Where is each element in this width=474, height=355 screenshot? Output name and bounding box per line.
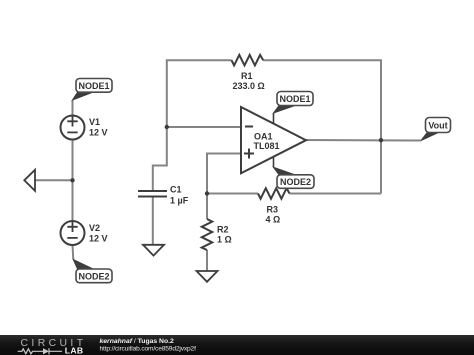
node flag NODE2 (at V2) — [73, 260, 93, 270]
resistor R2 zigzag (vertical) — [202, 219, 213, 250]
wire: R2 bottom to ground — [206, 250, 208, 271]
svg-text:kernahnaf / Tugas No.2: kernahnaf / Tugas No.2 — [100, 338, 175, 345]
svg-text:233.0 Ω: 233.0 Ω — [233, 81, 265, 91]
op-amp V- supply pin — [273, 157, 275, 168]
svg-text:12 V: 12 V — [89, 128, 108, 138]
wire: node C to R2 top — [206, 194, 208, 220]
svg-text:LAB: LAB — [65, 346, 84, 355]
wire: R3 right to right vertical — [290, 193, 382, 195]
op-amp OA1 triangle — [241, 107, 306, 173]
svg-text:NODE1: NODE1 — [279, 94, 310, 104]
svg-text:R3: R3 — [267, 205, 279, 215]
svg-text:4 Ω: 4 Ω — [266, 215, 281, 225]
resistor R1 zigzag — [232, 55, 264, 66]
op-amp minus symbol — [245, 126, 253, 128]
wire: node B down to C1 top — [153, 127, 167, 190]
svg-text:R2: R2 — [217, 225, 229, 235]
node flag Vout — [421, 133, 438, 141]
wire: C1 bottom to ground — [152, 198, 154, 245]
wire: feedback left vertical + top run (left of R1) — [167, 60, 232, 127]
svg-text:1 µF: 1 µF — [170, 196, 189, 206]
node flag NODE1 (op-amp V+) — [274, 106, 296, 114]
ground (below R2) — [197, 271, 218, 282]
wire: op-amp plus input to node C — [207, 154, 241, 194]
wire: V1 bottom to V2 top (through junction) — [72, 140, 74, 222]
svg-text:NODE2: NODE2 — [280, 177, 311, 187]
svg-text:V2: V2 — [89, 223, 100, 233]
junction node D (output/feedback) — [379, 138, 383, 142]
svg-text:NODE1: NODE1 — [78, 81, 109, 91]
wire: V2 bottom to NODE2 flag — [72, 245, 75, 260]
op-amp plus symbol — [244, 149, 254, 159]
node flag NODE2 (op-amp V-) — [274, 167, 296, 175]
wire: inverting input (node B to op-amp minus) — [167, 126, 241, 128]
wire: top run right of R1 + right vertical — [263, 60, 381, 193]
op-amp V+ supply pin — [273, 113, 275, 124]
resistor R3 zigzag — [258, 188, 290, 199]
svg-text:C1: C1 — [170, 185, 182, 195]
ground (below C1) — [143, 245, 164, 256]
svg-text:12 V: 12 V — [89, 234, 108, 244]
wire: node C to R3 left — [207, 193, 258, 195]
svg-text:TL081: TL081 — [254, 141, 280, 151]
svg-text:NODE2: NODE2 — [78, 271, 109, 281]
svg-text:http://circuitlab.com/ce859d2j: http://circuitlab.com/ce859d2jvxp2f — [100, 346, 197, 353]
junction node B (inverting input) — [165, 125, 169, 129]
svg-text:V1: V1 — [89, 117, 100, 127]
wire: left ground stub to junction A — [35, 179, 73, 181]
wire: op-amp output to Vout flag — [306, 139, 421, 142]
voltage source V1 — [61, 116, 85, 140]
wire: V1 top terminal to NODE1 flag — [72, 100, 74, 116]
logo squiggle: wire + resistor + diode — [18, 349, 43, 354]
ground (left, rotated) — [24, 170, 35, 191]
svg-text:Vout: Vout — [428, 120, 447, 130]
junction node A (V1/V2/ground) — [70, 178, 74, 182]
svg-text:R1: R1 — [241, 71, 253, 81]
junction node C (R2/R3/+input) — [205, 191, 209, 195]
capacitor C1 plates — [138, 191, 167, 197]
voltage source V2 — [61, 221, 85, 245]
node flag NODE1 (at V1) — [73, 92, 94, 100]
svg-text:OA1: OA1 — [254, 132, 273, 142]
svg-text:1 Ω: 1 Ω — [217, 235, 232, 245]
